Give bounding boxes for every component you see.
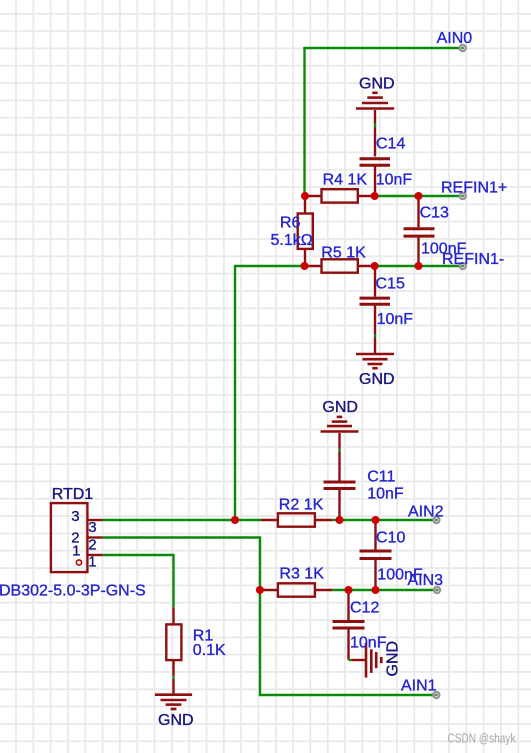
svg-text:C11: C11 [367, 469, 395, 486]
svg-text:C10: C10 [376, 530, 405, 547]
svg-text:GND: GND [158, 712, 194, 729]
svg-text:GND: GND [359, 76, 395, 93]
svg-text:R4 1K: R4 1K [323, 172, 368, 189]
svg-text:AIN0: AIN0 [437, 30, 473, 47]
svg-text:3: 3 [71, 508, 79, 525]
svg-text:0.1K: 0.1K [193, 642, 226, 659]
svg-text:C12: C12 [350, 600, 379, 617]
svg-text:R5 1K: R5 1K [321, 245, 366, 262]
svg-text:1: 1 [88, 554, 96, 571]
svg-text:2: 2 [88, 537, 96, 554]
svg-text:DB302-5.0-3P-GN-S: DB302-5.0-3P-GN-S [0, 582, 146, 599]
svg-text:C13: C13 [420, 205, 449, 222]
svg-text:AIN2: AIN2 [408, 504, 444, 521]
svg-text:10nF: 10nF [350, 635, 387, 652]
svg-text:GND: GND [322, 399, 358, 416]
svg-text:100nF: 100nF [377, 567, 423, 584]
svg-text:R6: R6 [280, 214, 301, 231]
svg-text:C14: C14 [376, 136, 405, 153]
svg-text:AIN1: AIN1 [401, 678, 437, 695]
svg-text:GND: GND [359, 371, 395, 388]
svg-text:10nF: 10nF [376, 172, 413, 189]
svg-text:100nF: 100nF [421, 241, 467, 258]
svg-text:RTD1: RTD1 [52, 486, 94, 503]
svg-text:1: 1 [72, 543, 80, 560]
svg-text:GND: GND [385, 641, 402, 677]
svg-text:CSDN @shayk: CSDN @shayk [448, 731, 516, 746]
svg-text:10nF: 10nF [367, 486, 404, 503]
svg-text:5.1kΩ: 5.1kΩ [271, 232, 313, 249]
svg-text:R3 1K: R3 1K [279, 566, 324, 583]
svg-text:R2 1K: R2 1K [279, 496, 324, 513]
svg-text:C15: C15 [376, 275, 405, 292]
svg-text:REFIN1+: REFIN1+ [441, 180, 507, 197]
svg-text:3: 3 [88, 519, 96, 536]
svg-text:10nF: 10nF [377, 311, 414, 328]
